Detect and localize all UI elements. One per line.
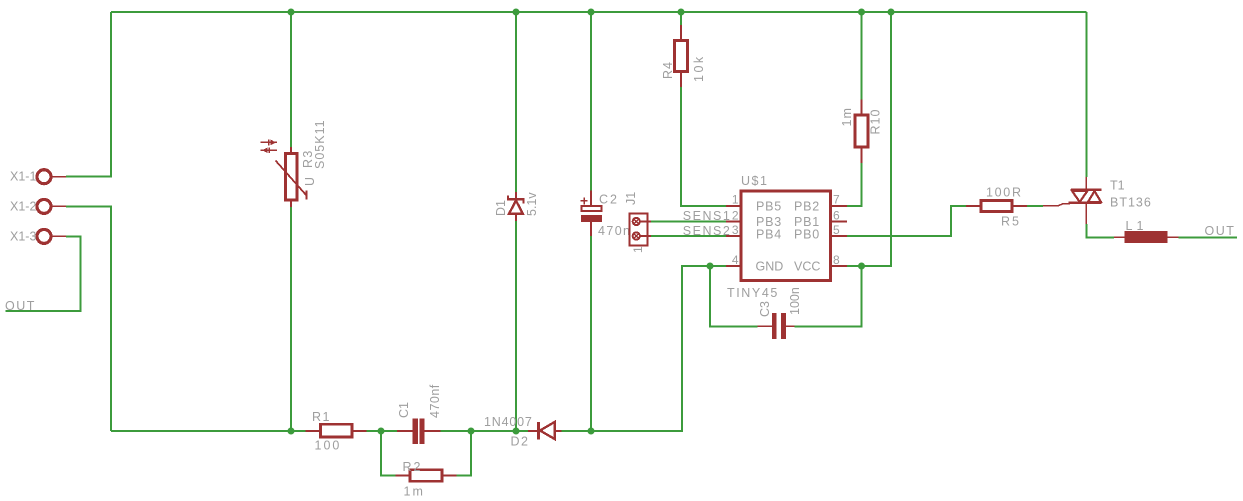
wire SENS1 [651,221,726,223]
svg-text:S05K11: S05K11 [313,119,327,169]
junction top rail / C2 [588,9,595,16]
junction bottom rail / C2 [588,428,595,435]
wire bottom rail C1-D2 [441,430,529,432]
svg-text:X1-3: X1-3 [10,230,36,244]
svg-text:470n: 470n [598,224,631,238]
svg-text:BT136: BT136 [1110,196,1152,210]
svg-text:R5: R5 [1001,215,1021,229]
svg-text:D1: D1 [494,200,508,216]
wire C2 column [590,12,592,191]
svg-text:100: 100 [315,439,342,453]
pin 8 lead [831,265,848,267]
svg-text:R1: R1 [312,410,331,424]
wire GND junction to C3 left [710,266,758,326]
svg-text:C3: C3 [758,301,772,317]
svg-text:1N4007: 1N4007 [484,415,533,429]
connector X1-2 [10,199,66,213]
junction top rail / D1 [513,9,520,16]
svg-text:R4: R4 [661,61,675,79]
svg-text:3: 3 [732,223,739,237]
svg-text:SENS1: SENS1 [683,209,732,223]
svg-text:J1: J1 [624,192,638,205]
junction top rail / R10 [858,9,865,16]
svg-text:5: 5 [833,223,840,237]
svg-text:6: 6 [833,209,840,223]
svg-text:10k: 10k [692,54,706,82]
svg-text:8: 8 [833,253,840,267]
svg-text:100R: 100R [986,186,1023,200]
junction top rail / VCC column [888,9,895,16]
svg-text:OUT: OUT [1205,224,1236,238]
svg-text:470nf: 470nf [428,384,442,418]
wire bottom rail left [111,430,306,432]
wire R4 column to pin 1 [680,12,682,25]
wire triac top [1085,12,1087,177]
connector X1-3 [10,229,66,243]
svg-text:U: U [303,177,317,186]
wire D1 column [515,12,517,192]
connector J1 [624,192,651,253]
svg-text:U$1: U$1 [741,174,768,188]
wire R10 bottom to pin 7 [847,163,862,206]
wire triac to L1 [1086,224,1114,237]
capacitor C2 470n electrolytic [581,191,632,239]
op IC U$1 TINY45 [726,174,847,300]
wire left vertical X1-1 to top rail [66,12,111,177]
svg-text:T1: T1 [1110,179,1125,193]
svg-text:C2: C2 [599,193,619,207]
svg-text:2: 2 [732,209,739,223]
triac T1 BT136 [1043,177,1152,224]
wire bottom rail D2 to GND pin [562,266,727,431]
wire L1 to OUT [1179,236,1238,238]
junction bottom rail / D1 [513,428,520,435]
wire bottom rail R1-C1 [367,430,398,432]
svg-text:TINY45: TINY45 [727,286,779,300]
wire SENS2 [651,235,726,237]
svg-text:SENS2: SENS2 [683,224,732,238]
pin 4 lead [726,265,741,267]
junction top rail / R3 [288,9,295,16]
junction VCC pin 8 / C3 [858,263,865,270]
resistor R1 100 [306,410,367,453]
wire varistor column [290,12,292,147]
wire R2 branch [381,431,396,476]
pin 1 lead [726,205,741,207]
pin 5 lead [831,235,848,237]
wire top rail [111,11,1086,13]
svg-text:7: 7 [833,193,840,207]
svg-text:VCC: VCC [794,260,820,274]
zener diode D1 5.1v [494,192,539,221]
svg-text:R2: R2 [403,460,423,474]
resistor R4 10k [661,25,706,87]
junction bottom rail / R2 left [378,428,385,435]
svg-text:PB4: PB4 [756,228,782,242]
pin 2 lead [726,221,741,223]
junction bottom rail / R3 [288,428,295,435]
svg-text:OUT: OUT [5,299,36,313]
junction top rail / R4 [678,9,685,16]
capacitor C3 100n [758,287,802,339]
svg-text:1m: 1m [840,107,854,126]
svg-text:X1-2: X1-2 [10,200,36,214]
svg-text:PB5: PB5 [756,200,782,214]
wire R10 top [861,12,863,100]
resistor R5 100R [966,186,1027,229]
connector X1-1 [10,170,66,184]
svg-text:R10: R10 [869,109,883,135]
pin 6 lead (unconnected stub) [831,221,848,223]
svg-text:4: 4 [732,253,739,267]
svg-text:L1: L1 [1126,219,1148,233]
pin 3 lead [726,235,741,237]
svg-text:1: 1 [732,193,739,207]
inductor L1 [1114,219,1179,243]
svg-text:D2: D2 [511,435,530,449]
wire pin 5 to R5 [847,206,966,236]
svg-text:1: 1 [631,246,645,253]
wire X1-3 to OUT label [6,236,81,311]
svg-text:GND: GND [756,260,784,274]
varistor R3 S05K11 [261,119,328,207]
svg-text:PB0: PB0 [794,228,820,242]
svg-text:1m: 1m [404,485,425,499]
wire VCC column x891 to pin 8 [847,12,891,266]
svg-text:C1: C1 [397,402,411,418]
svg-text:5.1v: 5.1v [525,192,539,216]
svg-text:PB2: PB2 [794,200,820,214]
capacitor C1 470nf [397,384,442,444]
resistor R2 1m [396,460,457,499]
wire X1-2 to bottom rail [66,206,111,431]
svg-text:X1-1: X1-1 [10,170,36,184]
junction bottom rail / R2 right [468,428,475,435]
resistor R10 1m [840,100,883,164]
junction GND / C3 [707,263,714,270]
wire VCC junction to C3 right [794,266,861,326]
pin 7 lead [831,205,848,207]
svg-text:100n: 100n [788,287,802,315]
diode D2 1N4007 [484,415,562,449]
wire R5 to gate [1027,205,1043,207]
